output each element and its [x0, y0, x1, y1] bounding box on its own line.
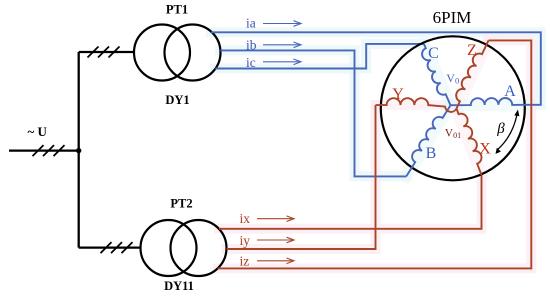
winding C — [422, 44, 450, 105]
winding B — [406, 105, 450, 176]
arrow ia — [263, 21, 301, 27]
svg-text:PT1: PT1 — [166, 3, 188, 17]
wire bus to PT1 — [79, 51, 135, 53]
source line — [9, 149, 79, 151]
arrow iy — [257, 237, 294, 243]
wire ic — [215, 44, 424, 69]
svg-text:iz: iz — [240, 254, 250, 269]
arrow ib — [263, 42, 301, 48]
wire bus to PT2 — [79, 246, 141, 248]
winding Y — [376, 98, 457, 112]
svg-text:iy: iy — [240, 233, 251, 248]
svg-text:ib: ib — [246, 37, 257, 52]
wire ia — [211, 32, 541, 105]
machine 6PIM circle — [381, 36, 525, 180]
winding X — [457, 109, 482, 176]
transformer PT2 — [141, 220, 197, 276]
winding Z — [456, 40, 488, 108]
slashes PT2 input — [101, 242, 133, 253]
svg-text:Z: Z — [467, 42, 477, 59]
jpeg fog halos — [211, 32, 541, 268]
wire ib — [220, 50, 406, 176]
wire iy — [227, 105, 376, 249]
beta arrowheads — [496, 110, 520, 154]
svg-text:ix: ix — [240, 211, 251, 226]
svg-text:A: A — [504, 83, 516, 100]
svg-text:ic: ic — [246, 55, 256, 70]
svg-text:B: B — [426, 145, 437, 162]
winding A — [451, 98, 526, 105]
svg-text:ia: ia — [246, 16, 256, 31]
svg-text:DY11: DY11 — [164, 279, 194, 293]
bus wire — [78, 52, 80, 248]
svg-text:C: C — [428, 45, 439, 62]
transformer PT1 — [134, 25, 190, 81]
svg-text:Y: Y — [392, 86, 404, 103]
beta arrow — [497, 114, 517, 150]
svg-text:X: X — [479, 141, 491, 158]
arrow ix — [257, 216, 294, 222]
slashes on source line — [33, 145, 65, 156]
svg-text:~ U: ~ U — [28, 124, 48, 139]
arrow ic — [263, 59, 301, 65]
svg-text:PT2: PT2 — [170, 197, 192, 211]
svg-text:β: β — [496, 121, 505, 137]
junction dot — [76, 148, 81, 153]
svg-text:V0: V0 — [446, 71, 459, 86]
slashes PT1 input — [88, 47, 120, 58]
svg-text:6PIM: 6PIM — [433, 8, 472, 27]
svg-text:DY1: DY1 — [165, 93, 189, 107]
wire ix — [219, 175, 482, 229]
wire iz — [218, 40, 532, 268]
arrow iz — [257, 258, 294, 264]
